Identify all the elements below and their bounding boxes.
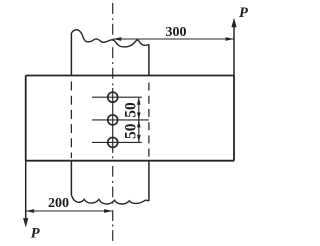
hidden left edge of vertical plate (dashed) <box>70 82 72 159</box>
svg-text:300: 300 <box>166 25 187 40</box>
vertical center line (dash-dot) upper part <box>112 3 114 85</box>
svg-text:200: 200 <box>48 196 69 211</box>
dimension 300 line <box>113 37 234 41</box>
dimension 200 line <box>26 209 113 213</box>
vertical center line (dash-dot) lower part <box>112 156 114 241</box>
vertical plate lower right edge <box>148 161 150 201</box>
vertical plate lower left edge <box>70 161 72 195</box>
dimension 50 lower line <box>137 120 141 142</box>
svg-text:50: 50 <box>122 102 139 118</box>
vertical center line solid through bolts <box>112 88 114 153</box>
svg-text:P: P <box>239 5 248 21</box>
horizontal plate outline <box>26 76 234 161</box>
vertical plate upper right edge <box>148 44 150 75</box>
force line P top right <box>231 18 236 76</box>
bolt hole B3 <box>92 137 142 147</box>
hidden right edge of vertical plate (dashed) <box>148 83 150 159</box>
svg-text:P: P <box>31 226 40 242</box>
dimension 50 upper line <box>137 97 141 120</box>
bolt hole B1 <box>92 92 142 102</box>
bolt hole B2 <box>92 115 149 125</box>
top wavy break line <box>71 30 148 47</box>
vertical plate upper left edge <box>70 33 72 76</box>
bottom wavy break line <box>71 195 148 204</box>
force line P bottom left <box>23 161 28 228</box>
svg-text:50: 50 <box>122 123 139 139</box>
